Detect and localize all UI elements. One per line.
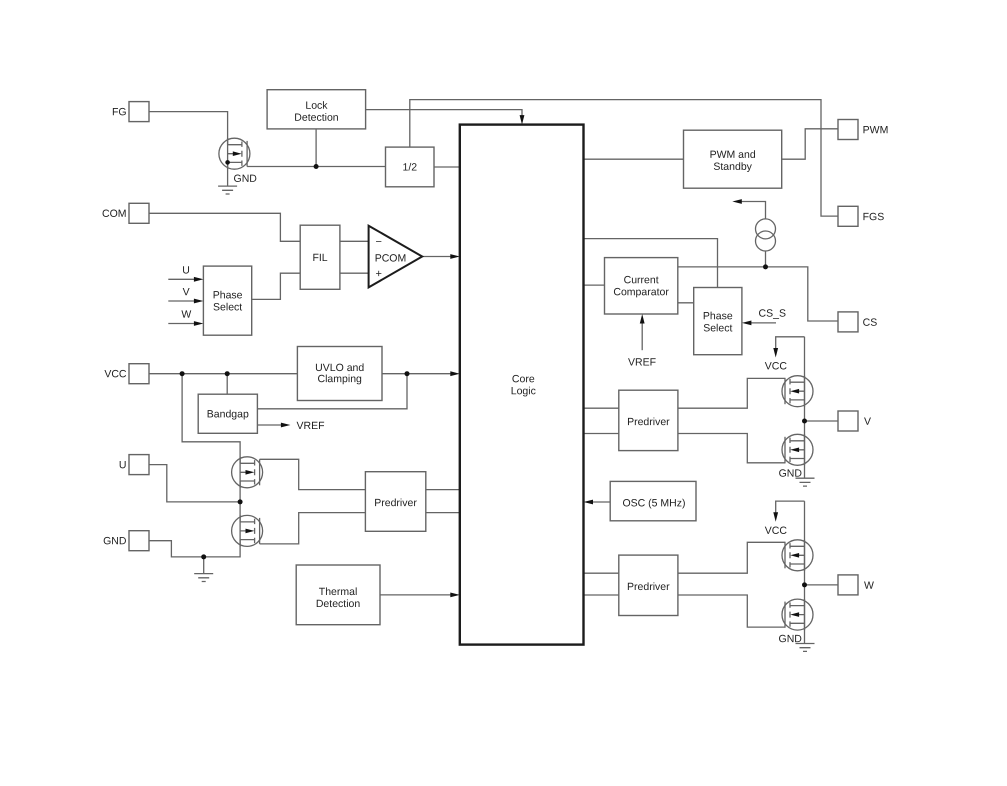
pin U <box>129 455 149 475</box>
pin GND <box>129 531 149 551</box>
pin CS <box>838 312 858 332</box>
svg-text:V: V <box>864 416 871 428</box>
transistor Q5 V low-side MOSFET <box>782 434 813 465</box>
wire VREF to Current Comparator <box>641 322 643 351</box>
wire COM pin to FIL input <box>149 213 300 241</box>
wire Predriver V to Q4 gate <box>678 378 786 408</box>
svg-text:Core: Core <box>512 373 535 385</box>
svg-text:Comparator: Comparator <box>613 286 669 298</box>
wire node VCC to Bandgap <box>226 374 228 395</box>
wire UVLO to Core Logic <box>382 373 452 375</box>
junction at node V output <box>802 419 807 424</box>
wire Current Comparator to node CS <box>678 267 838 321</box>
wire Lock Detection to node at 1/2 input <box>315 129 317 167</box>
wire VCC arrow to Q4 drain <box>776 337 805 352</box>
junction at node W output <box>802 582 807 587</box>
wire Q2 source to Q3 drain <box>239 481 241 522</box>
wire PWM and Standby to PWM pin <box>782 129 838 159</box>
svg-text:COM: COM <box>102 208 127 220</box>
block UVLO and Clamping <box>297 347 382 401</box>
arrowhead VCC at Q6 <box>773 512 778 522</box>
svg-text:W: W <box>181 309 191 321</box>
svg-text:Select: Select <box>703 322 732 334</box>
svg-text:Lock: Lock <box>305 100 328 112</box>
svg-text:Predriver: Predriver <box>374 497 417 509</box>
wire Core Logic to Current Comparator <box>584 284 605 286</box>
block Predriver U <box>365 472 425 532</box>
arrowhead U input <box>194 277 204 282</box>
op-amp PCOM <box>369 226 423 288</box>
arrowhead into Core Logic top <box>520 115 525 125</box>
wire Core Logic to Predriver W upper <box>584 572 619 574</box>
ground at Q5 source <box>796 478 815 486</box>
wire Core Logic to Predriver W lower <box>584 594 619 596</box>
wire V input to Phase Select <box>168 300 196 302</box>
svg-text:Bandgap: Bandgap <box>207 408 249 420</box>
block Lock Detection <box>267 90 366 129</box>
wire FIL to PCOM inverting input <box>340 240 369 242</box>
pin V <box>838 411 858 431</box>
wire VCC pin to UVLO <box>149 373 298 375</box>
svg-text:V: V <box>183 286 190 298</box>
transistor Q3 U low-side MOSFET <box>232 515 263 546</box>
svg-text:W: W <box>864 580 874 592</box>
svg-text:1/2: 1/2 <box>403 161 418 173</box>
ground at node GND left <box>194 574 213 582</box>
svg-text:CS: CS <box>863 317 878 329</box>
wire current source I1 to node CS <box>765 251 767 267</box>
svg-text:Select: Select <box>213 301 242 313</box>
ground at Q1 source <box>218 186 237 194</box>
wire Core Logic to PWM and Standby <box>584 158 684 160</box>
block Predriver V <box>619 390 678 450</box>
ground at Q7 source <box>796 644 815 652</box>
wire Bandgap VREF output <box>257 424 282 426</box>
wire ground stub at node GND <box>203 557 205 574</box>
arrowhead UVLO to Core <box>450 371 460 376</box>
transistor Q4 V high-side MOSFET <box>782 376 813 407</box>
transistor Q7 W low-side MOSFET <box>782 599 813 630</box>
svg-text:VCC: VCC <box>104 368 127 380</box>
svg-text:Clamping: Clamping <box>318 373 363 385</box>
svg-text:Thermal: Thermal <box>319 586 358 598</box>
svg-text:Detection: Detection <box>316 598 361 610</box>
wire W output line through Q6 and Q7 <box>804 501 806 643</box>
pin COM <box>129 203 149 223</box>
current source I1 <box>756 219 776 251</box>
wire Bandgap output to VCC node <box>257 374 407 409</box>
wire VCC node to Q2 drain <box>182 374 240 464</box>
svg-text:U: U <box>182 265 190 277</box>
svg-text:VCC: VCC <box>765 360 788 372</box>
svg-text:−: − <box>376 236 382 248</box>
svg-text:Phase: Phase <box>213 289 243 301</box>
arrowhead PCOM output <box>450 254 460 259</box>
arrowhead W input <box>194 321 204 326</box>
junction at node GND left <box>201 554 206 559</box>
wire Core Logic to Phase Select right <box>584 239 718 288</box>
svg-text:OSC (5 MHz): OSC (5 MHz) <box>622 497 685 509</box>
pin FGS <box>838 206 858 226</box>
wire Thermal Detection to Core Logic <box>380 594 452 596</box>
wire V output line through Q4 and Q5 <box>804 337 806 478</box>
block PWM and Standby <box>684 130 782 188</box>
svg-text:PWM and: PWM and <box>710 149 756 161</box>
wire 1/2 divider to FGS pin <box>410 100 838 217</box>
wire Current Comparator to Phase Select right <box>678 302 694 304</box>
block Core Logic <box>460 125 584 645</box>
svg-text:PWM: PWM <box>863 124 889 136</box>
arrowhead VREF from Bandgap <box>281 423 291 428</box>
arrowhead CS_S into Phase Select <box>742 321 752 326</box>
svg-text:VCC: VCC <box>765 525 788 537</box>
wire Predriver W to Q6 gate <box>678 542 786 573</box>
block Predriver W <box>619 555 678 615</box>
wire FG pin to Q1 drain <box>149 112 228 145</box>
svg-text:PCOM: PCOM <box>375 252 407 264</box>
wire Phase Select to FIL input <box>252 273 301 299</box>
junction at VCC node 2 <box>225 371 230 376</box>
arrowhead OSC to Core <box>584 500 594 505</box>
junction at node U output <box>238 499 243 504</box>
svg-text:FIL: FIL <box>312 252 327 264</box>
wire Predriver V to Q5 gate <box>678 434 786 463</box>
block Bandgap <box>198 394 257 433</box>
svg-text:VREF: VREF <box>296 420 324 432</box>
wire GND pin to Q3 source <box>149 540 240 557</box>
wire Core Logic to Predriver V lower <box>584 433 619 435</box>
junction at VCC node 3 <box>405 371 410 376</box>
wire Q3 gate to Predriver U <box>260 513 366 544</box>
junction at node CS <box>763 264 768 269</box>
junction at VCC node 1 <box>180 371 185 376</box>
wire Q1 source to ground <box>227 162 229 186</box>
wire current source I1 top arrow <box>740 202 766 220</box>
svg-text:FGS: FGS <box>863 211 885 223</box>
pin PWM <box>838 120 858 140</box>
svg-text:Detection: Detection <box>294 112 339 124</box>
pin FG <box>129 102 149 122</box>
wire Q1 gate to 1/2 divider <box>247 166 385 168</box>
svg-text:Phase: Phase <box>703 310 733 322</box>
junction at 1/2 input node <box>314 164 319 169</box>
svg-text:GND: GND <box>103 535 127 547</box>
block Current Comparator <box>605 258 678 314</box>
wire node V to V pin <box>805 420 839 422</box>
svg-text:Standby: Standby <box>713 161 752 173</box>
svg-text:CS_S: CS_S <box>759 308 786 320</box>
svg-text:Current: Current <box>624 274 659 286</box>
arrowhead current source direction <box>732 199 742 204</box>
arrowhead Thermal to Core <box>450 593 460 598</box>
block 1/2 divider <box>386 147 435 187</box>
wire Predriver W to Q7 gate <box>678 595 786 627</box>
svg-text:Logic: Logic <box>511 385 536 397</box>
svg-text:GND: GND <box>234 173 258 185</box>
svg-text:+: + <box>376 268 382 280</box>
wire Core Logic to Predriver V upper <box>584 407 619 409</box>
wire OSC to Core Logic <box>590 501 611 503</box>
block FIL <box>300 225 340 289</box>
wire CS_S to Phase Select right <box>750 322 777 324</box>
svg-text:Predriver: Predriver <box>627 416 670 428</box>
block Phase Select left <box>203 266 251 335</box>
arrowhead VCC at Q4 <box>773 348 778 358</box>
pin VCC <box>129 364 149 384</box>
wire W input to Phase Select <box>168 323 196 325</box>
wire VCC arrow to Q6 drain <box>776 501 805 516</box>
wire PCOM output to Core Logic <box>422 256 452 258</box>
arrowhead V input <box>194 299 204 304</box>
transistor Q2 U high-side MOSFET <box>232 457 263 488</box>
wire 1/2 divider to Core Logic <box>434 166 460 168</box>
transistor Q6 W high-side MOSFET <box>782 540 813 571</box>
wire U pin to node between Q2 and Q3 <box>149 465 240 502</box>
block OSC 5 MHz <box>610 481 696 520</box>
pin W <box>838 575 858 595</box>
wire Predriver U to Core Logic upper <box>426 489 460 491</box>
block Thermal Detection <box>296 565 380 625</box>
transistor Q1 FG open-drain MOSFET <box>219 138 250 169</box>
svg-text:Predriver: Predriver <box>627 581 670 593</box>
svg-text:FG: FG <box>112 106 127 118</box>
wire Predriver U to Core Logic lower <box>426 512 460 514</box>
block Phase Select right <box>694 288 742 355</box>
wire Q2 gate to Predriver U <box>260 459 366 489</box>
svg-text:VREF: VREF <box>628 357 656 369</box>
wire FIL to PCOM non-inverting input <box>340 272 369 274</box>
wire U input to Phase Select <box>168 278 196 280</box>
wire Lock Detection to Core Logic top <box>366 110 522 117</box>
svg-text:U: U <box>119 459 127 471</box>
arrowhead VREF into Current Comparator <box>640 314 645 324</box>
wire node W to W pin <box>805 584 839 586</box>
